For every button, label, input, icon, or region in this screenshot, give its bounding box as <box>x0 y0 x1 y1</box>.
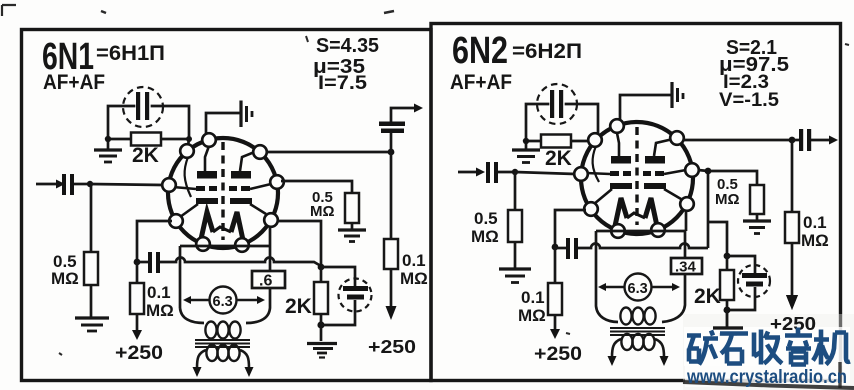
svg-text:6.3: 6.3 <box>628 281 648 297</box>
resistor box .6 heater dropper <box>252 271 285 288</box>
wire: junction down through C5 bottom <box>390 133 393 152</box>
ground GND2 below R1 <box>75 318 109 331</box>
wire: node to R4 <box>320 267 323 282</box>
vacuum tube V2 6N2 envelope <box>581 122 693 234</box>
svg-text:2K: 2K <box>132 144 159 167</box>
wire: grid G4 lead to pin 8 <box>664 170 686 174</box>
resistor R7 0.5M grid leak <box>508 210 522 242</box>
wire: C9 bottom to node <box>727 287 755 310</box>
watermark Chinese logo (kuang shi shou yin ji) <box>687 328 850 365</box>
junction node dot cathode-right <box>186 136 192 142</box>
tube V1 pin 5 <box>196 237 210 251</box>
wire: plate3 from pin 9 to output junction <box>683 139 792 142</box>
wire: T2 secondary left lead with arrow <box>612 339 621 357</box>
wire: grid node down to R7 <box>514 172 517 210</box>
capacitor C2 electrolytic plates <box>136 92 149 120</box>
wire: .34 box down to transformer <box>662 274 685 322</box>
svg-text:MΩ: MΩ <box>146 301 174 320</box>
cathode K1 bar <box>196 198 218 204</box>
wire: pin1 to top ground <box>206 113 240 144</box>
wire: anode A2 lead to pin 9 <box>240 151 257 171</box>
anode A3 bar <box>611 156 631 164</box>
resistor R5 0.1M plate load <box>384 239 398 269</box>
transformer T1 primary winding <box>205 322 240 339</box>
wire: pin 7 drop to .6 box <box>269 227 272 271</box>
wire: R5 down to +250 arrow <box>390 269 393 307</box>
wire: R10 to ground <box>756 214 759 220</box>
wire: grid4 junction vertical <box>707 172 710 248</box>
resistor R4 2K cathode <box>314 282 328 314</box>
wire: node to C3 <box>137 261 148 264</box>
wire: heater line under tube V2 <box>596 230 685 233</box>
wire: internal lead from pin 2 <box>185 157 191 197</box>
svg-text:MΩ: MΩ <box>518 306 546 325</box>
wire: cathode K3 lead to pin 4 <box>594 189 612 204</box>
transformer T2 primary winding <box>620 308 655 325</box>
wire: 6.3 left arrow right panel <box>605 286 624 288</box>
resistor R12 0.1M plate load <box>785 212 799 243</box>
wire: heater line under tube V1 <box>180 245 270 248</box>
watermark backdrop <box>683 314 854 390</box>
capacitor C6 input coupling plates <box>486 162 490 183</box>
capacitor C7 electrolytic plates <box>550 90 554 118</box>
wire: heater left drop <box>596 231 618 322</box>
svg-text:AF+AF: AF+AF <box>450 71 512 94</box>
wire: grid G3 lead to pin 3 <box>586 173 610 174</box>
junction node dot left <box>523 138 529 144</box>
wire: heater right drop to .34 box <box>684 231 687 258</box>
input arrow head <box>56 180 65 189</box>
heater voltmeter 6.3 circle right <box>625 274 652 301</box>
wire: signal bus right panel with hops <box>578 244 708 249</box>
wire: cathode node riser to bypass cap C7 <box>526 104 548 141</box>
wire: cathode K1 lead to pin 4 <box>180 204 198 217</box>
wire: R12 down to +250 arrow <box>791 243 794 296</box>
wire: pin 4 plate2 lead left and down <box>137 221 172 262</box>
wire: jog to 2K riser <box>708 222 727 254</box>
grid G2 dashes <box>229 186 237 191</box>
wire: 6.3 left measuring arrow <box>190 299 209 301</box>
resistor R9 0.1M plate load <box>548 283 562 315</box>
svg-text:.34: .34 <box>675 259 697 276</box>
wire: C5 up and out with arrow <box>391 108 415 122</box>
panel border right (6N2 cell frame) <box>431 24 841 381</box>
wire: 6.3 right arrow right panel <box>652 286 673 288</box>
junction node plate3 <box>552 244 559 251</box>
svg-text:MΩ: MΩ <box>715 191 740 208</box>
junction node grid1 <box>87 181 93 187</box>
resistor R8 2K cathode bias <box>541 135 571 148</box>
wire: node to tube pin 2 <box>188 139 189 146</box>
svg-text:AF+AF: AF+AF <box>43 71 105 94</box>
wire: bypass cap C2 right lead down to node <box>152 106 189 139</box>
svg-text:+250: +250 <box>115 343 163 364</box>
transformer T2 core <box>610 328 665 335</box>
junction node cathode2 <box>318 264 325 271</box>
resistor R10 0.5M grid leak <box>750 185 764 214</box>
ground GND-top right (sideways) <box>672 82 683 108</box>
svg-text:MΩ: MΩ <box>310 203 335 220</box>
ground GND8 redraw over backdrop <box>724 307 731 314</box>
svg-text:+250: +250 <box>770 314 816 334</box>
wire: pin 4 plate lead to node <box>555 210 586 247</box>
svg-text:www.crystalradio.cn: www.crystalradio.cn <box>686 366 847 388</box>
wire: heater link right tube <box>627 213 645 218</box>
wire: pin 7 down to heater line <box>685 210 688 231</box>
resistor R6 0.5M <box>345 193 359 223</box>
svg-text:2K: 2K <box>545 147 572 170</box>
grid G1 dashes <box>196 186 205 191</box>
anode A1 bar <box>197 171 217 179</box>
grid G4 dashes <box>643 171 651 176</box>
wire: grid G2 lead to pin 8 <box>250 184 271 189</box>
wire: node to resistor R2 left <box>108 138 131 141</box>
wire: node to R11 <box>726 256 729 270</box>
resistor R11 2K cathode <box>720 270 734 300</box>
wire: C1 to grid node <box>74 183 90 186</box>
tube V1 pin 1 <box>202 133 216 147</box>
ground GND4 below R4 <box>307 314 337 358</box>
svg-text:0.5: 0.5 <box>474 209 498 228</box>
wire: internal lead from pin 2 right tube <box>593 146 599 182</box>
wire: .6 box down to transformer primary <box>246 288 270 323</box>
capacitor C9 dashed circle <box>738 265 770 297</box>
wire: grid node to pin 3 <box>515 172 575 174</box>
tube V2 pin 1 <box>610 119 624 133</box>
capacitor C4 electrolytic plates <box>343 286 368 291</box>
junction node grid3 <box>512 169 518 175</box>
tube V2 pin 2 <box>588 133 602 147</box>
tube V2 pin 8 <box>685 163 699 177</box>
junction node grid4 <box>705 168 712 175</box>
wire: anode A1 lead to pin 1 <box>205 146 209 171</box>
svg-text:=6Н2П: =6Н2П <box>512 40 582 63</box>
+250 supply arrow head <box>132 330 142 340</box>
wire: grid node to tube pin 3 <box>90 184 163 185</box>
junction node plate2 <box>134 259 141 266</box>
wire: C7 right lead down <box>566 104 598 141</box>
junction node cathode4 bottom <box>724 307 731 314</box>
svg-text:I=7.5: I=7.5 <box>318 73 367 94</box>
transformer T1 secondary winding <box>206 345 239 361</box>
vacuum tube V1 6N1 envelope <box>168 138 278 248</box>
anode A2 bar <box>231 171 251 179</box>
wire: resistor R2 right to node <box>161 138 189 141</box>
wire: input arrow lead right panel <box>458 171 477 174</box>
wire: heater link <box>213 227 231 232</box>
transformer T2 secondary winding <box>621 334 654 350</box>
capacitor C2 dashed circle <box>123 87 163 127</box>
heater H2 filament <box>231 212 243 240</box>
ground GND-top (sideways) <box>241 101 252 128</box>
grid G3 dashes <box>610 171 619 176</box>
junction node output <box>789 137 796 144</box>
tube V2 pin 4 <box>584 202 598 216</box>
tube V1 internal shield (dashed) <box>221 142 224 240</box>
svg-text:0.1: 0.1 <box>402 251 426 270</box>
wire: junction down to R12 <box>791 140 794 212</box>
wire: plate2 node to R3 <box>136 262 139 283</box>
tube V2 internal shield (dashed) <box>635 127 638 225</box>
panel bottom border redraw over watermark (skewed scan) <box>683 382 854 388</box>
svg-text:MΩ: MΩ <box>801 231 829 250</box>
wire: pin 8 grid4 to junction to R10 <box>698 170 757 185</box>
wire: heater left curve into transformer primary <box>180 308 204 323</box>
heater H4 filament <box>645 198 657 226</box>
capacitor C1 input coupling plates <box>62 174 66 195</box>
capacitor C5 output coupling plates <box>379 122 405 127</box>
wire: junction to C10 <box>792 139 799 142</box>
wire: pin 8 to R6 <box>281 181 352 193</box>
ground GND7 below R10 <box>743 221 771 234</box>
svg-text:MΩ: MΩ <box>471 227 499 246</box>
wire: node to 2K R8 <box>526 140 541 143</box>
tube V1 pin 9 <box>253 145 267 159</box>
panel right border redraw below watermark glyphs <box>838 362 841 388</box>
wire: C10 out with arrow <box>811 139 830 142</box>
svg-text:2K: 2K <box>694 285 721 308</box>
svg-text:+250: +250 <box>368 337 416 357</box>
wire: right node to pin 2 <box>597 140 598 143</box>
heater H3 filament <box>615 198 627 226</box>
tube V2 pin 7 <box>680 197 694 211</box>
wire: input arrow lead <box>36 183 57 186</box>
wire: heater left drop x=180 <box>179 246 182 308</box>
wire: cathode K2 lead to pin 7 <box>250 204 266 214</box>
svg-text:V=-1.5: V=-1.5 <box>719 90 779 111</box>
wire: R3 to +250 arrow <box>136 314 139 331</box>
ground GND8 below R11 <box>713 310 743 335</box>
input arrow head right <box>476 168 485 177</box>
capacitor C9 electrolytic plates <box>742 273 767 278</box>
junction node dot right <box>595 138 601 144</box>
wire: T2 secondary right lead with arrow <box>655 339 664 357</box>
wire: grid G1 lead to pin 3 <box>173 187 196 189</box>
ground GND5 below node <box>512 141 540 163</box>
junction node cathode4 top <box>724 253 731 260</box>
panel border left (6N1 cell frame) <box>22 30 432 381</box>
cathode K3 bar <box>610 183 632 189</box>
ground GND1 below cathode node <box>94 139 122 162</box>
tube V2 pin 3 <box>574 167 588 181</box>
resistor box .34 heater dropper <box>671 258 702 274</box>
svg-text:MΩ: MΩ <box>51 269 79 288</box>
tube V1 pin 6 <box>235 238 249 252</box>
wire: node to bypass cap C4 <box>321 267 355 286</box>
wire: anode A3 lead to pin 1 <box>617 133 619 156</box>
tube V2 pin 9 <box>670 131 684 145</box>
tube V1 pin 2 <box>180 144 194 158</box>
junction node below R4 <box>317 321 324 328</box>
heater H1 filament <box>201 212 213 239</box>
wire: cathode K1 node up-left riser to bypass cap C2 <box>108 106 134 139</box>
wire: secondary left lead with arrow <box>197 350 206 368</box>
tube V2 pin 6 <box>651 223 665 237</box>
svg-text:0.1: 0.1 <box>147 283 171 302</box>
wire: R1 to ground <box>90 285 93 317</box>
resistor R3 0.1M plate load <box>130 283 144 314</box>
wire: cathode K4 lead to pin 7 <box>664 189 681 199</box>
resistor R1 0.5M grid leak <box>84 252 98 285</box>
cathode K2 bar <box>230 198 252 204</box>
wire: pin 1 to top ground right panel <box>620 95 671 130</box>
wire: 6.3 right measuring arrow <box>237 299 258 301</box>
svg-text:0.1: 0.1 <box>521 288 545 307</box>
wire: plate1 from pin 9 to output junction <box>266 151 391 154</box>
tube V2 pin 5 <box>611 224 625 238</box>
junction node dot cathode-left <box>105 136 111 142</box>
tube V1 pin 4 <box>169 214 183 228</box>
svg-text:2K: 2K <box>285 295 312 318</box>
tube V1 pin 7 <box>264 213 278 227</box>
wire: junction down to R5 <box>390 152 393 239</box>
svg-text:=6Н1П: =6Н1П <box>96 42 165 65</box>
svg-text:MΩ: MΩ <box>400 269 428 288</box>
redraw +250 far right over backdrop <box>770 314 816 334</box>
capacitor C7 dashed circle <box>537 84 577 124</box>
wire: R9 to +250 arrow <box>554 315 557 330</box>
capacitor C8 interstage plates <box>566 238 570 259</box>
capacitor C4 dashed circle <box>339 279 372 312</box>
wire: node to C8 <box>555 247 566 250</box>
wire: pin 7 to 2K riser <box>277 221 321 264</box>
capacitor C10 output coupling plates <box>799 129 803 151</box>
wire: secondary right lead with arrow <box>240 350 249 368</box>
ground GND3 below R6 <box>338 230 366 242</box>
junction node plate1 <box>388 149 395 156</box>
wire: R8 to right node <box>571 140 598 143</box>
wire: grid node down to R1 <box>90 184 93 252</box>
tube V1 pin 8 <box>270 175 284 189</box>
heater voltmeter 6.3 circle <box>210 287 237 314</box>
wire: anode A4 lead to pin 9 <box>654 139 673 156</box>
resistor R2 2K cathode bias <box>131 133 161 146</box>
wire: R11 to bottom node <box>726 300 729 310</box>
capacitor C3 interstage plates <box>148 252 152 273</box>
tube V1 pin 3 <box>162 178 176 192</box>
svg-text:S=4.35: S=4.35 <box>316 35 379 57</box>
wire: node to bypass cap C9 <box>727 256 755 273</box>
wire: R6 to ground <box>351 223 354 229</box>
svg-text:6.3: 6.3 <box>213 294 233 310</box>
wire: C4 bottom to ground node <box>321 300 355 325</box>
svg-text:0.1: 0.1 <box>803 213 827 232</box>
cathode K4 bar <box>644 183 666 189</box>
wire: R7 to ground <box>514 242 517 268</box>
wire: node to R9 <box>554 247 557 283</box>
svg-text:+250: +250 <box>534 344 582 365</box>
svg-text:6N2: 6N2 <box>452 30 508 72</box>
ground GND6 below R7 <box>499 269 531 283</box>
svg-text:.6: .6 <box>259 273 272 290</box>
wire: signal bus with hops <box>160 258 321 267</box>
wire: C6 to grid node <box>498 171 515 174</box>
anode A4 bar <box>645 156 665 164</box>
transformer T1 core <box>195 340 250 347</box>
